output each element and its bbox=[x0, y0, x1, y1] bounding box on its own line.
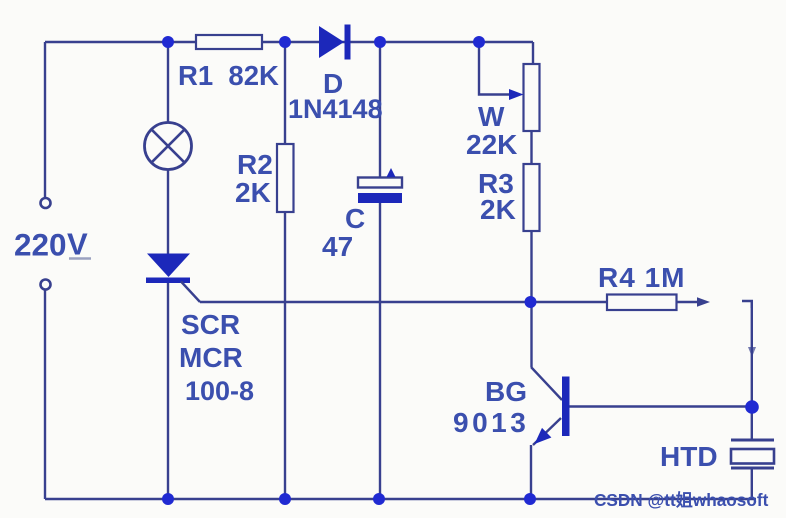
wire C column upper bbox=[379, 42, 381, 178]
potentiometer W 22K bbox=[509, 64, 540, 131]
wire right column bbox=[751, 301, 753, 407]
svg-text:47: 47 bbox=[322, 231, 353, 262]
wire emitter to rail bbox=[530, 445, 532, 499]
wire W top feed bbox=[532, 42, 534, 64]
svg-text:SCR: SCR bbox=[181, 309, 240, 340]
wire gate bus bbox=[200, 301, 607, 303]
node junction top C bbox=[374, 36, 386, 48]
svg-text:CSDN @tt姐whaosoft: CSDN @tt姐whaosoft bbox=[594, 490, 769, 510]
svg-text:R1 82K: R1 82K bbox=[178, 60, 279, 91]
label BG 9013 bbox=[453, 376, 529, 438]
svg-text:22K: 22K bbox=[466, 129, 517, 160]
svg-text:1N4148: 1N4148 bbox=[288, 94, 383, 124]
switch blade arrow bbox=[697, 297, 710, 306]
svg-text:220: 220 bbox=[14, 227, 67, 263]
svg-text:C: C bbox=[345, 203, 365, 234]
wire R2 column bbox=[284, 42, 286, 499]
label W 22K bbox=[466, 101, 517, 160]
buzzer HTD bbox=[731, 440, 774, 468]
svg-text:MCR: MCR bbox=[179, 342, 243, 373]
node junction collector HTD bbox=[745, 400, 759, 414]
wire left upper bbox=[44, 42, 46, 197]
svg-text:9013: 9013 bbox=[453, 407, 529, 438]
label C 47 bbox=[322, 203, 365, 262]
resistor R2 bbox=[277, 144, 294, 212]
label SCR MCR 100-8 bbox=[179, 309, 254, 406]
svg-text:HTD: HTD bbox=[660, 441, 718, 472]
label R3 2K bbox=[478, 168, 516, 225]
wire W to R3 bbox=[530, 131, 532, 164]
wire R3 to transistor bbox=[530, 231, 532, 367]
svg-text:2K: 2K bbox=[480, 194, 516, 225]
wire lamp to SCR bbox=[167, 170, 169, 254]
wire collector to HTD node bbox=[570, 405, 753, 407]
label 220V bbox=[14, 227, 91, 263]
node junction bottom R2 bbox=[279, 493, 291, 505]
node junction top wiper bbox=[473, 36, 485, 48]
node junction top lamp bbox=[162, 36, 174, 48]
svg-text:2K: 2K bbox=[235, 177, 271, 208]
node 220V top terminal bbox=[41, 198, 51, 208]
svg-text:W: W bbox=[478, 101, 505, 132]
wire left lower bbox=[44, 290, 46, 499]
wire bottom rail bbox=[45, 498, 756, 500]
resistor R4 bbox=[607, 295, 677, 311]
wire lamp anode bbox=[167, 42, 169, 122]
node junction gate bus R3 bbox=[525, 296, 537, 308]
lamp EL bbox=[145, 123, 192, 170]
svg-text:BG: BG bbox=[485, 376, 527, 407]
wire R4 to switch blade bbox=[677, 301, 700, 303]
wire top rail bbox=[45, 41, 533, 43]
label D 1N4148 bbox=[288, 68, 383, 124]
capacitor C 47 bbox=[358, 168, 402, 203]
switch wire arrow bbox=[748, 347, 756, 357]
wire SCR cathode bbox=[167, 282, 169, 499]
node 220V bottom terminal bbox=[41, 280, 51, 290]
wire C column lower bbox=[379, 202, 381, 499]
wire HTD top lead bbox=[751, 407, 753, 439]
svg-text:V: V bbox=[67, 227, 88, 262]
transistor BG 9013 bbox=[531, 367, 570, 445]
node junction bottom SCR bbox=[162, 493, 174, 505]
label R2 2K bbox=[235, 149, 273, 208]
node junction bottom C bbox=[373, 493, 385, 505]
node junction bottom emitter bbox=[524, 493, 536, 505]
wire switch fixed contact bbox=[742, 301, 752, 308]
wire HTD bottom lead bbox=[751, 469, 753, 499]
resistor R3 bbox=[524, 164, 540, 231]
resistor R1 bbox=[196, 35, 262, 49]
thyristor SCR MCR100-8 bbox=[146, 254, 200, 303]
svg-text:100-8: 100-8 bbox=[185, 376, 254, 406]
wire wiper feed bbox=[479, 42, 512, 95]
node junction top R2 bbox=[279, 36, 291, 48]
svg-text:R2: R2 bbox=[237, 149, 273, 180]
svg-text:R4 1M: R4 1M bbox=[598, 262, 685, 293]
diode D 1N4148 bbox=[319, 25, 351, 60]
